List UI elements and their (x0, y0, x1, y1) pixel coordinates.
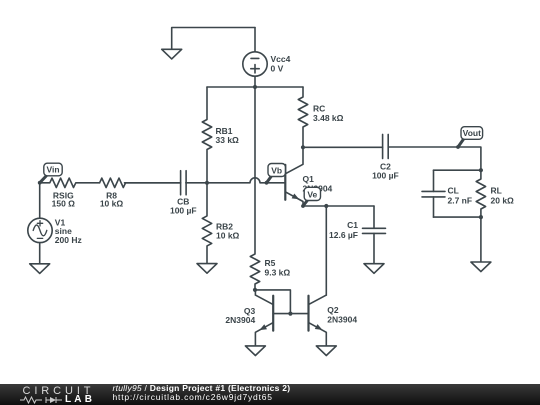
wire base with hop over R5 line (186, 178, 285, 183)
ground (RL) (471, 262, 491, 272)
capacitor C2 100u (303, 134, 458, 158)
svg-text:200 Hz: 200 Hz (55, 235, 82, 245)
wire mirror bias (255, 290, 290, 314)
svg-text:Ve: Ve (307, 189, 317, 199)
transistor Q2 2N3904 (309, 206, 327, 346)
flag Vin (38, 163, 62, 185)
svg-text:2N3904: 2N3904 (327, 314, 357, 324)
resistor R5 9.3k (vertical from rail to mirror) (250, 87, 259, 290)
node: load bottom junction (479, 215, 483, 219)
label Vcc4 0V (271, 54, 291, 74)
footer bar (0, 384, 540, 405)
wire supply rail (207, 86, 303, 88)
svg-text:33 kΩ: 33 kΩ (216, 135, 240, 145)
svg-text:Vb: Vb (271, 165, 282, 175)
node: Vout top junction (479, 168, 483, 172)
svg-text:RC: RC (313, 104, 325, 114)
footer title (113, 383, 291, 393)
ground (Q3) (245, 346, 265, 356)
footer url (113, 392, 273, 402)
wire top-left horizontal from ground to Vcc4 (172, 28, 255, 50)
voltage source Vcc4 (243, 28, 267, 88)
svg-text:9.3 kΩ: 9.3 kΩ (265, 268, 291, 278)
svg-text:2.7 nF: 2.7 nF (448, 196, 473, 206)
svg-text:100 µF: 100 µF (170, 205, 197, 215)
svg-text:R5: R5 (265, 258, 276, 268)
footer logo LAB (65, 394, 95, 405)
node: collector junction (301, 145, 305, 149)
ground (V1) (30, 264, 50, 274)
node: Vcc rail junction (253, 85, 257, 89)
node: base rail junction (288, 312, 292, 316)
svg-text:150 Ω: 150 Ω (52, 199, 76, 209)
flag Vb (265, 164, 286, 185)
resistor RB2 10k (202, 183, 211, 264)
ground (RB2) (197, 264, 217, 274)
flag Vout (456, 127, 483, 149)
svg-text:3.48 kΩ: 3.48 kΩ (313, 113, 344, 123)
wire CL top (434, 169, 481, 171)
svg-text:RL: RL (491, 185, 502, 195)
wire output corner (458, 147, 481, 170)
wire RL to ground (480, 217, 482, 262)
svg-text:Vout: Vout (463, 128, 481, 138)
wire CL bottom (434, 216, 481, 218)
capacitor C1 12.6u (363, 206, 386, 264)
svg-text:Vcc4: Vcc4 (271, 54, 291, 64)
wire emitter to C1/Q2 (303, 205, 374, 207)
svg-text:Vin: Vin (46, 165, 59, 175)
footer logo doodle (20, 395, 64, 405)
resistor RL 20k (476, 170, 485, 217)
capacitor CB 100u (125, 171, 187, 195)
node: base divider junction (205, 181, 209, 185)
svg-text:20 kΩ: 20 kΩ (491, 196, 515, 206)
svg-text:2N3904: 2N3904 (225, 315, 255, 325)
svg-text:10 kΩ: 10 kΩ (100, 199, 124, 209)
capacitor CL 2.7n (422, 170, 445, 217)
svg-text:Q2: Q2 (327, 305, 339, 315)
ground (C1) (364, 264, 384, 274)
transistor Q3 2N3904 (mirrored) (255, 290, 273, 346)
ground (top left) (162, 49, 182, 59)
ground (Q2) (316, 346, 336, 356)
resistor R8 10k (100, 178, 181, 187)
resistor RB1 33k (202, 87, 211, 183)
svg-text:CL: CL (448, 185, 459, 195)
svg-text:12.6 µF: 12.6 µF (329, 230, 358, 240)
wire base rail (273, 313, 308, 315)
svg-text:100 µF: 100 µF (372, 170, 399, 180)
node: mirror top junction (253, 288, 257, 292)
svg-text:0 V: 0 V (271, 64, 284, 74)
footer logo CIRCUIT (23, 385, 95, 397)
resistor RC 3.48k (298, 87, 307, 147)
transistor Q1 2N3904 (285, 147, 303, 206)
resistor RSIG 150 (40, 178, 100, 187)
svg-text:C1: C1 (347, 220, 358, 230)
node: Ve junction (324, 204, 328, 208)
svg-text:10 kΩ: 10 kΩ (216, 231, 240, 241)
voltage source V1 sine (28, 183, 52, 264)
flag Ve (301, 187, 320, 208)
